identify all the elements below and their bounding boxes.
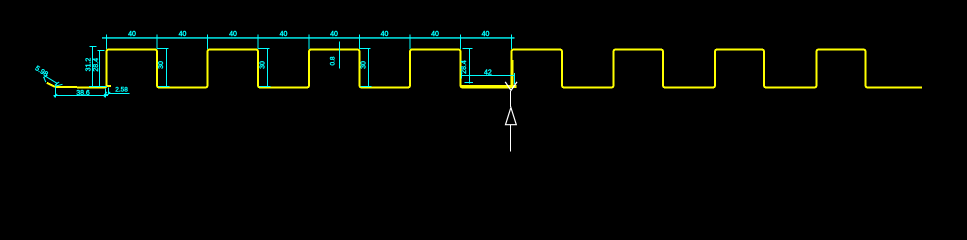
svg-text:30: 30 — [259, 61, 266, 69]
dimension labels 40 — [128, 31, 489, 38]
small lip dim 2.58 — [109, 88, 130, 95]
web height dim 30 rib3 — [359, 49, 372, 87]
svg-text:40: 40 — [128, 31, 136, 38]
svg-text:38.6: 38.6 — [76, 90, 90, 97]
leader line lower segment — [510, 125, 512, 152]
extension lines down to profile — [106, 42, 108, 49]
svg-text:0.8: 0.8 — [330, 56, 337, 65]
sheet profile outline — [47, 50, 922, 88]
svg-text:2.58: 2.58 — [115, 86, 128, 93]
svg-text:30: 30 — [360, 61, 367, 69]
svg-text:40: 40 — [280, 31, 288, 38]
svg-text:28.4: 28.4 — [461, 60, 468, 74]
svg-text:40: 40 — [381, 31, 389, 38]
overall height dim 31.2 at left end — [90, 47, 97, 87]
svg-text:31.2: 31.2 — [85, 58, 92, 72]
start edge diagonal dim 5.98 — [43, 75, 62, 86]
highlighted lap segment (thick) web of rib 5 — [511, 60, 514, 87]
svg-text:40: 40 — [179, 31, 187, 38]
svg-text:40: 40 — [431, 31, 439, 38]
svg-text:28.4: 28.4 — [93, 58, 100, 72]
inner height dim 28.4 at rib4 right web — [463, 49, 474, 84]
white leader open arrowhead V at lap — [505, 82, 517, 91]
inner height dim 28.4 at left end — [89, 51, 107, 87]
thickness dim 0.8 at rib3 top flange — [339, 42, 341, 69]
web height dim 30 rib1 — [157, 49, 170, 87]
bottom start dim 38.6 — [54, 87, 109, 98]
svg-text:42: 42 — [484, 70, 492, 77]
svg-text:40: 40 — [330, 31, 338, 38]
bottom flange lip stub at first rib base — [107, 85, 112, 87]
hollow arrow head triangle — [506, 108, 517, 125]
leader line upper segment — [510, 91, 512, 107]
svg-text:40: 40 — [229, 31, 237, 38]
top dimension line — [102, 37, 515, 39]
svg-text:40: 40 — [482, 31, 490, 38]
svg-text:30: 30 — [158, 61, 165, 69]
web height dim 30 rib2 — [258, 49, 271, 87]
dimension ticks — [106, 35, 108, 42]
lap width dim 42 — [461, 73, 515, 84]
highlighted lap segment (thick) bottom flange — [461, 85, 517, 88]
